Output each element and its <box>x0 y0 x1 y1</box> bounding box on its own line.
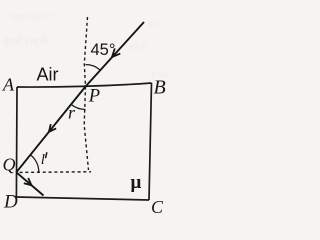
svg-text:nd di: nd di <box>129 41 148 51</box>
rectangle side DC (bottom edge) <box>16 197 149 200</box>
dashed normal line at Q (horizontal) <box>20 171 92 174</box>
svg-text:B: B <box>154 77 166 99</box>
refracted ray P to Q <box>16 87 85 173</box>
arrowhead on incident ray <box>112 48 120 57</box>
svg-text:D: D <box>3 192 18 213</box>
paper background <box>0 0 177 214</box>
svg-text:A: A <box>2 75 15 95</box>
arrowhead on reflected ray <box>24 178 32 185</box>
svg-text:l: l <box>41 152 45 168</box>
svg-text:Air: Air <box>37 65 59 85</box>
arc of 45 degree angle at P <box>86 64 101 70</box>
rectangle side AD (left edge) <box>15 87 18 197</box>
svg-text:atii: atii <box>147 18 159 28</box>
totally internally reflected ray from Q <box>16 172 43 195</box>
svg-text:. , .: . , . <box>100 204 111 214</box>
svg-text:Q: Q <box>3 155 16 175</box>
svg-text:P: P <box>88 87 100 107</box>
svg-text:r: r <box>68 103 76 123</box>
dashed normal line through P (vertical) <box>84 17 88 170</box>
arrowhead on refracted ray <box>49 124 56 132</box>
svg-text:ged raph: ged raph <box>3 32 49 47</box>
rectangle side BC (right edge) <box>149 83 152 200</box>
rectangle side AB (top edge) <box>17 83 152 87</box>
arc of angle l' at Q <box>30 155 39 173</box>
incident ray (45 degrees) <box>86 22 145 87</box>
faint bleed-through text top-left row1 <box>3 10 170 215</box>
svg-text:μ: μ <box>131 172 142 193</box>
svg-text:C: C <box>151 197 164 214</box>
svg-text:45°: 45° <box>91 41 116 59</box>
arc of angle r below P <box>71 104 85 109</box>
svg-text:wem ani r: wem ani r <box>9 10 53 22</box>
